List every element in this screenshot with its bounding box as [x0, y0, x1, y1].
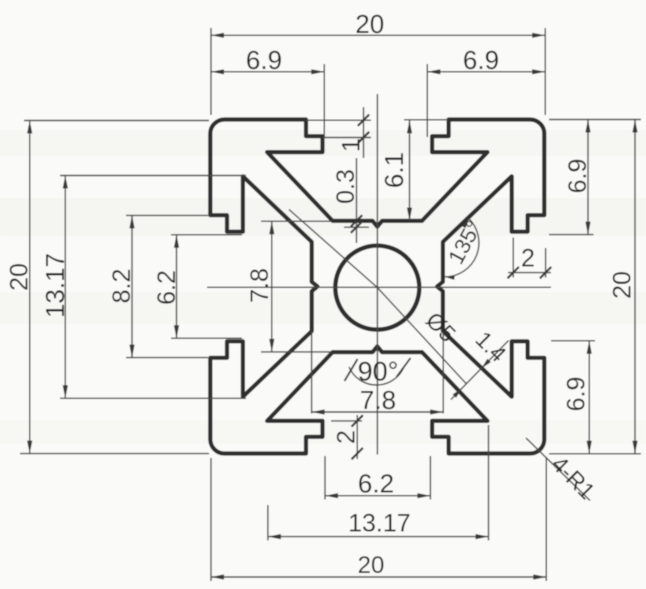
dimension 20 overall width top — [211, 9, 545, 115]
svg-text:2: 2 — [521, 245, 535, 273]
diagonal leader line for diameter 5 — [289, 210, 467, 385]
dimension 20 overall height right — [549, 120, 641, 454]
svg-text:20: 20 — [358, 552, 385, 579]
dimension 135 degree wall angle — [443, 216, 486, 280]
horizontal centerline — [207, 286, 551, 288]
svg-text:6.2: 6.2 — [358, 468, 394, 498]
svg-text:8.2: 8.2 — [108, 269, 136, 304]
dimension 7.8 core width bottom — [312, 332, 444, 416]
svg-text:6.9: 6.9 — [463, 45, 499, 75]
label diameter 5 — [421, 307, 461, 347]
svg-text:0.3: 0.3 — [332, 169, 360, 204]
dimension 6.9 top-left flange — [211, 45, 324, 137]
dimension 90 degree web angle — [345, 357, 411, 387]
dimension 6.2 slot opening bottom — [325, 456, 430, 500]
dimension 0.3 core notch depth — [332, 158, 369, 243]
dimension 6.9 right-bottom flange — [551, 341, 595, 454]
dimension 6.9 top-right flange — [427, 45, 545, 137]
dimension 13.17 slot span left — [40, 176, 246, 399]
svg-text:7.8: 7.8 — [360, 385, 396, 415]
dimension 20 overall height left — [6, 121, 210, 454]
extrusion profile outline — [210, 120, 544, 454]
dimension 2 right lip — [508, 238, 552, 279]
dimension 7.8 core height left — [246, 221, 332, 352]
svg-text:90°: 90° — [358, 357, 399, 387]
svg-text:13.17: 13.17 — [348, 510, 411, 538]
vertical centerline — [376, 94, 378, 455]
svg-text:6.9: 6.9 — [563, 377, 591, 412]
dimension 6.2 slot opening left — [153, 235, 242, 338]
dimension 13.17 slot span bottom — [268, 425, 489, 541]
dimension 1 lip step depth — [306, 107, 371, 158]
dimension 2 bottom lip — [331, 415, 363, 459]
dimension 1.4 web thickness — [451, 326, 512, 400]
leader 4-R1 corner radius — [526, 438, 600, 504]
dimension 20 overall width bottom — [211, 457, 546, 581]
svg-text:13.17: 13.17 — [40, 253, 70, 318]
dimension 8.2 slot step opening left — [108, 215, 208, 357]
svg-text:7.8: 7.8 — [246, 268, 274, 303]
svg-text:6.1: 6.1 — [379, 152, 409, 188]
dimension 6.1 slot depth — [379, 120, 448, 221]
svg-text:6.9: 6.9 — [246, 45, 282, 75]
svg-text:6.2: 6.2 — [153, 270, 181, 305]
svg-text:2: 2 — [333, 430, 361, 444]
svg-text:20: 20 — [609, 271, 637, 299]
center hole diameter 5 — [335, 246, 419, 330]
svg-text:20: 20 — [355, 9, 384, 39]
svg-text:6.9: 6.9 — [564, 159, 592, 194]
dimension 6.9 right-top flange — [549, 120, 641, 235]
svg-text:20: 20 — [6, 263, 34, 291]
svg-text:1: 1 — [338, 138, 366, 152]
